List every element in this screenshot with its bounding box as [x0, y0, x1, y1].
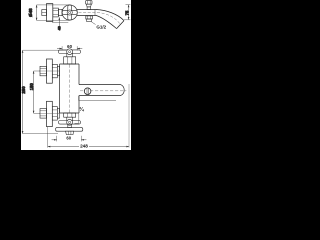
- bottom hub stub: [68, 124, 72, 128]
- upper union centerline: [39, 70, 60, 72]
- body centerline (dashed): [69, 65, 71, 113]
- svg-text:60: 60: [67, 44, 72, 49]
- dimension 75 (right of side view): [124, 5, 130, 20]
- wall flange (side view): [47, 4, 53, 22]
- union nut (side view): [53, 8, 59, 17]
- lower union centerline: [39, 112, 60, 114]
- upper union nut: [52, 64, 57, 78]
- svg-text:60: 60: [66, 135, 71, 140]
- spout (side view, curved): [96, 10, 124, 29]
- bottom cross handle bar: [58, 121, 80, 125]
- lower wall union: pipe nut: [40, 109, 47, 119]
- top cross handle bar: [58, 50, 80, 54]
- dimension 150 (inner left): [33, 71, 40, 113]
- lower wall flange: [47, 101, 53, 126]
- bottom bonnet: [64, 113, 76, 117]
- shower outlet nut (side view, below): [86, 16, 93, 22]
- spout (plan view, straight right): [79, 85, 124, 96]
- main body (plan): [60, 64, 79, 113]
- svg-text:Ø48: Ø48: [28, 8, 33, 17]
- diverter knob (plan view circle): [84, 88, 91, 95]
- dimension 250 (outer left): [22, 50, 66, 134]
- top handle hub: [67, 49, 73, 55]
- dimension 60 (bottom outlet): [52, 136, 87, 142]
- top bonnet: [64, 57, 76, 64]
- svg-text:248: 248: [80, 143, 88, 148]
- svg-text:75: 75: [124, 10, 129, 15]
- body tube (side view): [77, 10, 97, 16]
- spout centerline (dashed): [97, 13, 120, 25]
- upper wall union: pipe nut: [40, 66, 47, 76]
- lower union nut: [52, 107, 57, 121]
- bottom neck: [67, 117, 73, 120]
- dimension 248 (bottom): [48, 84, 129, 148]
- tub reference line: [79, 96, 116, 101]
- svg-text:40: 40: [58, 26, 62, 30]
- svg-text:250: 250: [21, 86, 26, 94]
- lower union ring: [57, 109, 59, 119]
- top neck: [67, 53, 73, 56]
- dimension D48 (left of side view): [36, 5, 70, 21]
- outlet aerator: [66, 131, 74, 134]
- upper union ring: [57, 66, 59, 76]
- diverter knob (side view, on top): [86, 1, 92, 10]
- outlet flange plate: [56, 128, 83, 132]
- dimension 40 (small, under side view): [52, 17, 68, 26]
- label G1/2 (side view): [92, 22, 107, 30]
- centerline (side body, dashed): [79, 12, 98, 14]
- upper wall flange: [47, 59, 53, 83]
- svg-text:¾: ¾: [79, 106, 84, 113]
- svg-text:G1/2: G1/2: [96, 25, 106, 30]
- cross handle (side view): [62, 5, 77, 20]
- wire wall stub: [42, 10, 47, 16]
- neck ring (side view): [58, 9, 62, 15]
- svg-text:150: 150: [29, 83, 34, 91]
- spout centerline (plan, dashed): [80, 90, 126, 92]
- bottom handle hub: [67, 119, 73, 125]
- body edge below spout hook: [75, 113, 79, 123]
- dimension 60 (top of plan view): [57, 46, 82, 50]
